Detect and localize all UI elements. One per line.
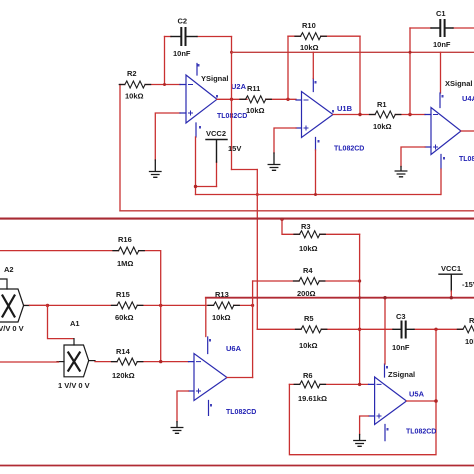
svg-text:10nF: 10nF (173, 49, 191, 58)
node junction R4 right on summing vertical (358, 279, 361, 282)
wire: U2A output feedback vertical (231, 37, 233, 170)
svg-text:10nF: 10nF (433, 40, 451, 49)
svg-text:R15: R15 (116, 290, 130, 299)
wire: mid power rail (196, 194, 441, 196)
svg-text:-15V: -15V (462, 280, 474, 289)
wire: R10 top line (288, 35, 360, 37)
op-amp U5A (369, 364, 407, 441)
multiplier A1 (57, 339, 95, 377)
svg-text:U1B: U1B (337, 104, 353, 113)
svg-text:R2: R2 (127, 69, 137, 78)
svg-text:10kΩ: 10kΩ (465, 337, 474, 346)
wire: Y signal vertical down to R5 (256, 170, 258, 330)
wire: C2 feedback top line left lead (165, 36, 172, 38)
op-amp U6A input polarity marks (197, 362, 201, 393)
node junction A1 input tap (46, 304, 49, 307)
op-amp U2A (180, 64, 217, 138)
ground below U1B plus input (268, 153, 280, 170)
capacitor C2 right black lead (186, 36, 197, 38)
wire: XSignal rail (to R2) (120, 210, 474, 212)
capacitor C1 (440, 20, 444, 36)
svg-text:A1: A1 (70, 319, 80, 328)
svg-text:A2: A2 (4, 265, 14, 274)
pin number specks U4A (442, 95, 446, 160)
capacitor C1 black leads (431, 27, 453, 29)
node junction VCC rail tap (230, 51, 233, 54)
node junction R14 line summing (159, 360, 162, 363)
svg-text:YSignal: YSignal (201, 74, 229, 83)
svg-text:200Ω: 200Ω (297, 289, 316, 298)
resistor pin stubs (112, 36, 463, 384)
capacitor C2 (181, 28, 185, 45)
resistor R7 clipped at edge (463, 326, 474, 333)
wire: A1 upper input link (48, 305, 74, 338)
svg-text:VCC2: VCC2 (206, 129, 226, 138)
node junction on top rail at C1 branch (409, 51, 412, 54)
wire: R2 left drop to X rail (119, 85, 121, 211)
svg-text:C1: C1 (436, 9, 446, 18)
wire: R16 line from left edge (0, 251, 161, 362)
wire: U6A V+ drop from negative rail (205, 298, 207, 337)
wire: R4 line (253, 280, 360, 282)
svg-text:120kΩ: 120kΩ (112, 371, 135, 380)
op-amp U1B input polarity marks (304, 100, 308, 130)
node junction U2A output (230, 98, 233, 101)
wire: U6A output (227, 377, 253, 379)
capacitor C3 (402, 322, 406, 338)
svg-text:10kΩ: 10kΩ (246, 106, 265, 115)
wire: U6A plus input to ground (177, 391, 189, 422)
wire: U4A V- pin down to mid rail end (440, 169, 442, 195)
op-amp U6A (189, 337, 228, 415)
node junction R10 right at U1B output (358, 113, 361, 116)
ground below U5A plus input (354, 435, 366, 447)
resistor R11 (246, 96, 266, 103)
wire: C3 line (360, 328, 436, 330)
wire: VCC2 pin lower red part (216, 162, 218, 187)
resistor R4 (299, 278, 319, 285)
node junction summing vertical on negative rail crossing (358, 296, 361, 299)
node junction U1B V- on mid rail (314, 193, 317, 196)
wire: U2A V- pin down to VCC2 tap (195, 137, 197, 195)
wire: U4A plus input to ground (401, 147, 425, 167)
pin number specks U1B (315, 81, 335, 143)
op-amp U4A input polarity marks (434, 115, 438, 150)
svg-text:R13: R13 (215, 290, 229, 299)
svg-text:10kΩ: 10kΩ (373, 122, 392, 131)
multiplier A2 (0, 279, 24, 322)
wire: R1 to U4A minus input (395, 114, 425, 116)
svg-text:U4A: U4A (462, 94, 474, 103)
wire: A2 output (30, 304, 48, 306)
ground below U4A plus input (395, 167, 407, 177)
svg-text:TL082CD: TL082CD (334, 146, 364, 153)
wire: negative supply rail VCC1 (206, 297, 474, 299)
wire: Y feedback horizontal jog (232, 169, 258, 171)
wire: U5A plus input to ground (360, 416, 369, 435)
op-amp U4A (425, 93, 461, 169)
wire: VCC1 pin to negative rail (450, 291, 452, 298)
wire: A1 output to R14 (95, 361, 189, 363)
wire: R3 drop from bus rail (282, 219, 360, 234)
resistor R2 (125, 81, 145, 88)
ground below U6A plus input (171, 422, 183, 434)
node junction C1 input (408, 113, 411, 116)
resistor R6 (300, 381, 320, 388)
svg-text:XSignal: XSignal (445, 79, 473, 88)
wire: A1 left input from edge (0, 361, 59, 363)
wire: U4A output to right edge (461, 130, 474, 132)
capacitor C3 black leads (393, 328, 414, 330)
resistor R3 (300, 231, 320, 238)
node junction R13 right to U6A feedback (251, 304, 254, 307)
wire: U1B V+ pin to top rail (312, 52, 314, 78)
svg-text:U2A: U2A (231, 82, 247, 91)
wire: R6 feedback loop (289, 329, 436, 454)
svg-text:15V: 15V (228, 144, 241, 153)
wire: A2 output black stub (24, 305, 30, 307)
wire: U1B output to R1 (333, 114, 375, 116)
node junction C2/R2 at minus input (163, 83, 166, 86)
wire: multiplier output line with R15 R13 (24, 304, 253, 306)
svg-text:19.61kΩ: 19.61kΩ (298, 394, 327, 403)
wire: R11 to U1B minus input (266, 98, 296, 100)
node junction C3 right (434, 328, 437, 331)
op-amp U5A input polarity marks (377, 384, 381, 418)
wire: R7 line to right edge (436, 328, 463, 330)
wire: U4A V+ pin to top rail (440, 52, 442, 93)
wire: summing node vertical (359, 234, 361, 384)
ground below U2A plus input (150, 160, 162, 177)
svg-text:10kΩ: 10kΩ (299, 244, 318, 253)
wire: bottom signal rail (0, 465, 474, 467)
svg-text:R11: R11 (247, 84, 260, 93)
resistor R10 (301, 33, 321, 40)
svg-text:R5: R5 (304, 314, 314, 323)
wire: U6A feedback vertical (252, 281, 254, 378)
resistor R1 (375, 111, 395, 118)
svg-text:U5A: U5A (409, 390, 425, 399)
svg-text:10kΩ: 10kΩ (125, 92, 144, 101)
svg-text:10nF: 10nF (392, 343, 410, 352)
op-amp U2A input polarity marks (189, 85, 193, 116)
node junction R5/C3 at summing vertical (358, 328, 361, 331)
node junction U5A output (434, 399, 438, 403)
svg-text:60kΩ: 60kΩ (115, 313, 134, 322)
power symbol VCC1 (439, 274, 462, 291)
op-amp U1B (296, 79, 333, 151)
svg-text:10kΩ: 10kΩ (300, 43, 319, 52)
wire: top supply rail (232, 51, 474, 53)
svg-text:R4: R4 (303, 266, 313, 275)
svg-text:TL082CD: TL082CD (459, 156, 474, 163)
wire: U1B plus input to ground (274, 128, 296, 153)
svg-text:ZSignal: ZSignal (388, 370, 415, 379)
svg-text:10kΩ: 10kΩ (299, 341, 318, 350)
node junction R3 tap on bus rail (280, 218, 283, 221)
pin number specks U5A (386, 366, 389, 431)
svg-text:TL082CD: TL082CD (406, 429, 436, 436)
wire: R10 feedback left vertical (287, 36, 289, 99)
node junction R15 right to summing vertical (159, 304, 162, 307)
resistor R13 (214, 302, 234, 309)
power symbol VCC2 (206, 140, 227, 163)
svg-text:R6: R6 (303, 371, 313, 380)
wire: U2A output to R11 (217, 98, 247, 100)
wire: C2 feedback top line right lead (197, 36, 232, 38)
wire: R6 line (289, 383, 368, 385)
resistor R5 (301, 326, 321, 333)
svg-text:TL082CD: TL082CD (226, 409, 256, 416)
svg-text:C2: C2 (178, 17, 188, 26)
node junction R6 right at summing vertical (358, 383, 361, 386)
svg-text:C3: C3 (396, 312, 406, 321)
wire: C1 top line (410, 27, 474, 29)
wire: U5A V+ drop from negative rail (384, 298, 386, 364)
svg-text:R14: R14 (116, 347, 131, 356)
svg-text:R1: R1 (377, 100, 387, 109)
svg-text:1 V/V 0 V: 1 V/V 0 V (0, 324, 24, 333)
resistor R15 (117, 302, 137, 309)
wire: R2 line into U2A minus input (120, 84, 180, 86)
node junction Y loop on mid rail (256, 193, 259, 196)
wire: VCC2 tap horizontal (196, 186, 217, 188)
resistor R16 (119, 247, 139, 254)
svg-text:VCC1: VCC1 (441, 264, 461, 273)
wire: C1 left vertical (409, 28, 411, 115)
node junction U5A supply on negative rail (383, 296, 386, 299)
svg-text:U6A: U6A (226, 344, 242, 353)
svg-text:10kΩ: 10kΩ (212, 313, 231, 322)
svg-text:1MΩ: 1MΩ (117, 259, 133, 268)
wire: U5A output (407, 400, 437, 402)
capacitor C2 left black lead (171, 36, 180, 38)
wire: U1B V- pin down to mid rail (315, 150, 317, 195)
node junction R10 left (286, 98, 289, 101)
wire: long signal bus rail (0, 218, 474, 220)
svg-text:R16: R16 (118, 235, 132, 244)
node junction VCC2 tap (194, 185, 197, 188)
svg-text:R3: R3 (301, 222, 311, 231)
pin number specks U6A (209, 339, 212, 407)
svg-text:TL082CD: TL082CD (217, 113, 247, 120)
wire: C2 left vertical to U2A inverting input (164, 37, 166, 85)
wire: R5 line (257, 328, 359, 330)
svg-text:R7: R7 (469, 316, 474, 325)
node junction VCC1 on negative rail (450, 296, 453, 299)
svg-text:R10: R10 (302, 21, 316, 30)
pin number specks U2A (198, 64, 219, 129)
resistor R14 (117, 358, 137, 365)
wire: R10 right vertical to U1B output (359, 36, 361, 114)
svg-text:1 V/V 0 V: 1 V/V 0 V (58, 381, 90, 390)
wire: U2A plus input to ground (155, 113, 180, 160)
